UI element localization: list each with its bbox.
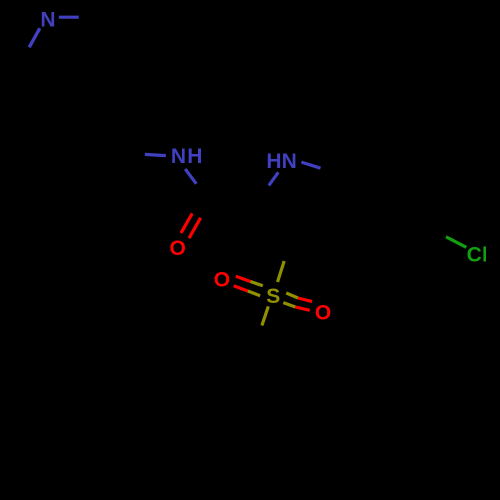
- svg-text:N: N: [40, 8, 55, 31]
- wire N(indole)-C7a half-bond (blue, to right): [301, 162, 320, 168]
- wire S-C3 half-bond (olive, up): [278, 261, 285, 282]
- wire C4p-N(amide) half-bond (blue, from left): [145, 154, 166, 155]
- wire S=O left, line 2 olive half: [248, 291, 260, 296]
- svg-text:N: N: [171, 145, 186, 168]
- wire S=O right, line 1 olive half: [286, 293, 298, 298]
- wire S=O right, line 2 olive half: [283, 303, 295, 307]
- wire S-CH3 half-bond (olive, down-left): [262, 306, 268, 325]
- wire S=O left, line 1 olive half: [250, 282, 262, 286]
- svg-text:C: C: [467, 244, 482, 267]
- wire N(amide)-C(carbonyl) half-bond (blue, down-right): [185, 169, 196, 184]
- svg-text:S: S: [266, 285, 280, 308]
- svg-text:H: H: [187, 145, 202, 168]
- wire S=O right, line 2 red half: [295, 307, 309, 310]
- wire S=O left, line 2 red half: [234, 286, 248, 291]
- svg-text:O: O: [214, 268, 230, 291]
- wire S=O left, line 1 red half: [236, 276, 251, 281]
- wire C=O double bond, O-half line 2 (red): [189, 218, 201, 238]
- svg-text:H: H: [266, 150, 281, 173]
- svg-text:N: N: [282, 150, 297, 173]
- wire N1-C6p half-bond (blue, down-left): [29, 28, 40, 47]
- svg-text:O: O: [315, 301, 331, 324]
- wire C5-Cl half-bond (green, up-left): [446, 237, 466, 248]
- svg-text:O: O: [170, 237, 186, 260]
- wire S=O right, line 1 red half: [298, 298, 312, 302]
- wire N1-C2p half-bond (blue, to right): [59, 16, 79, 19]
- wire C=O double bond, O-half line 1 (red): [181, 213, 192, 233]
- wire N(indole)-C2 half-bond (blue, down-left): [269, 172, 279, 185]
